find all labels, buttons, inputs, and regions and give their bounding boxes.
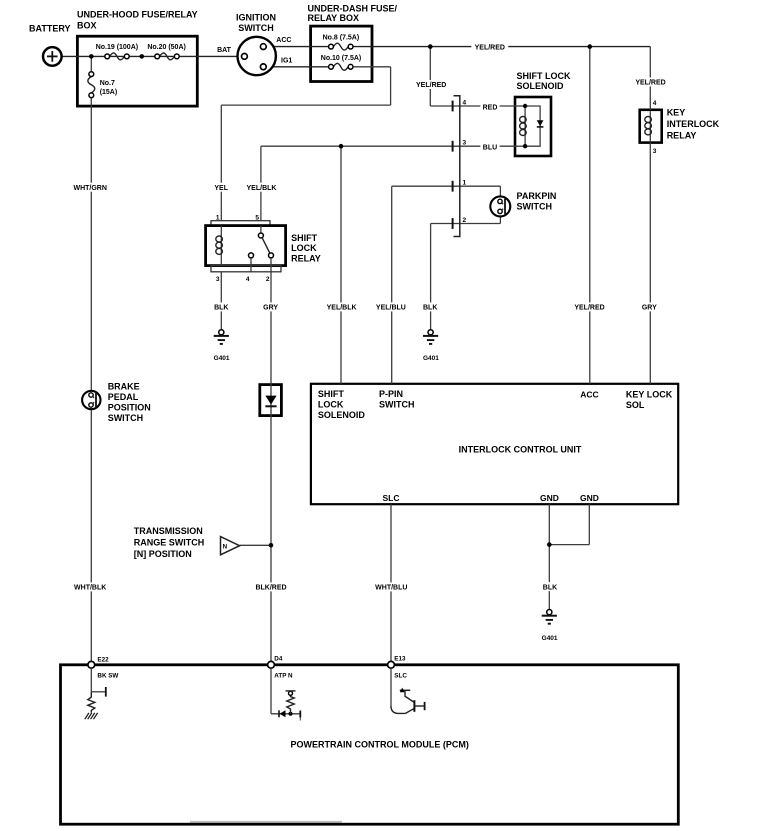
svg-text:POSITION: POSITION — [108, 403, 151, 413]
svg-text:INTERLOCK: INTERLOCK — [667, 119, 720, 129]
svg-text:3: 3 — [216, 276, 220, 283]
svg-text:3: 3 — [653, 148, 657, 155]
svg-text:4: 4 — [653, 100, 657, 107]
svg-text:BRAKE: BRAKE — [108, 382, 140, 392]
svg-text:SOLENOID: SOLENOID — [517, 81, 565, 91]
svg-text:BLK/RED: BLK/RED — [255, 585, 286, 592]
svg-text:SWITCH: SWITCH — [108, 413, 144, 423]
svg-text:5: 5 — [255, 214, 259, 221]
svg-text:P-PIN: P-PIN — [379, 389, 403, 399]
svg-text:SWITCH: SWITCH — [238, 23, 274, 33]
svg-text:1: 1 — [216, 214, 220, 221]
svg-text:IG1: IG1 — [281, 58, 292, 65]
svg-text:LOCK: LOCK — [291, 243, 317, 253]
svg-text:3: 3 — [463, 140, 467, 147]
svg-text:IGNITION: IGNITION — [236, 13, 276, 23]
svg-text:No.7: No.7 — [100, 80, 115, 87]
svg-text:BLK: BLK — [423, 305, 437, 312]
svg-text:RANGE SWITCH: RANGE SWITCH — [134, 537, 205, 547]
svg-text:2: 2 — [266, 276, 270, 283]
svg-text:G401: G401 — [423, 355, 439, 362]
svg-text:No.20 (50A): No.20 (50A) — [147, 44, 186, 51]
svg-text:SHIFT: SHIFT — [291, 233, 318, 243]
svg-text:SLC: SLC — [383, 493, 400, 503]
svg-text:[N] POSITION: [N] POSITION — [134, 549, 192, 559]
svg-text:2: 2 — [463, 217, 467, 224]
svg-text:No.10 (7.5A): No.10 (7.5A) — [321, 55, 361, 62]
svg-text:GND: GND — [540, 493, 559, 503]
svg-text:WHT/GRN: WHT/GRN — [73, 185, 106, 192]
svg-text:GRY: GRY — [263, 305, 278, 312]
svg-text:No.8 (7.5A): No.8 (7.5A) — [323, 34, 360, 41]
svg-text:KEY: KEY — [667, 107, 686, 117]
svg-text:BOX: BOX — [77, 21, 97, 31]
svg-text:SWITCH: SWITCH — [517, 202, 553, 212]
svg-text:E22: E22 — [97, 657, 109, 664]
svg-text:YEL/RED: YEL/RED — [475, 44, 505, 51]
svg-text:G401: G401 — [542, 635, 558, 642]
svg-text:RELAY: RELAY — [291, 253, 321, 263]
svg-text:ATP N: ATP N — [274, 673, 293, 680]
svg-text:GND: GND — [580, 493, 599, 503]
svg-text:E13: E13 — [394, 656, 406, 663]
svg-text:YEL/BLK: YEL/BLK — [327, 305, 357, 312]
svg-text:TRANSMISSION: TRANSMISSION — [134, 526, 203, 536]
svg-text:BAT: BAT — [217, 47, 232, 54]
svg-text:BK SW: BK SW — [97, 673, 118, 680]
svg-text:YEL: YEL — [214, 185, 228, 192]
svg-text:SOL: SOL — [626, 400, 645, 410]
svg-text:GRY: GRY — [642, 305, 657, 312]
svg-text:PARKPIN: PARKPIN — [517, 191, 557, 201]
svg-text:SLC: SLC — [394, 673, 407, 680]
svg-text:SWITCH: SWITCH — [379, 399, 415, 409]
svg-text:WHT/BLU: WHT/BLU — [375, 585, 407, 592]
svg-text:SHIFT: SHIFT — [318, 389, 345, 399]
svg-text:YEL/BLK: YEL/BLK — [247, 185, 277, 192]
svg-text:UNDER-HOOD FUSE/RELAY: UNDER-HOOD FUSE/RELAY — [77, 10, 198, 20]
svg-text:POWERTRAIN CONTROL MODULE (PCM: POWERTRAIN CONTROL MODULE (PCM) — [291, 740, 469, 750]
svg-text:1: 1 — [463, 180, 467, 187]
svg-text:No.19 (100A): No.19 (100A) — [96, 44, 138, 51]
svg-text:SHIFT LOCK: SHIFT LOCK — [517, 71, 571, 81]
svg-text:ACC: ACC — [580, 390, 598, 400]
svg-text:BLK: BLK — [214, 305, 228, 312]
svg-text:4: 4 — [246, 276, 250, 283]
svg-text:RED: RED — [483, 104, 498, 111]
svg-text:INTERLOCK CONTROL UNIT: INTERLOCK CONTROL UNIT — [459, 445, 582, 455]
svg-text:WHT/BLK: WHT/BLK — [74, 585, 106, 592]
svg-text:BLU: BLU — [483, 145, 497, 152]
svg-text:PEDAL: PEDAL — [108, 392, 139, 402]
svg-text:BLK: BLK — [543, 584, 557, 591]
svg-text:N: N — [223, 544, 228, 551]
svg-text:YEL/RED: YEL/RED — [635, 80, 665, 87]
svg-text:D4: D4 — [274, 656, 283, 663]
svg-text:YEL/BLU: YEL/BLU — [376, 305, 406, 312]
svg-text:YEL/RED: YEL/RED — [574, 305, 604, 312]
svg-text:ACC: ACC — [276, 37, 291, 44]
svg-text:RELAY: RELAY — [667, 131, 697, 141]
svg-text:RELAY BOX: RELAY BOX — [308, 13, 360, 23]
svg-text:4: 4 — [463, 99, 467, 106]
svg-text:LOCK: LOCK — [318, 399, 344, 409]
svg-text:SOLENOID: SOLENOID — [318, 410, 366, 420]
svg-text:UNDER-DASH FUSE/: UNDER-DASH FUSE/ — [308, 3, 398, 13]
svg-text:YEL/RED: YEL/RED — [416, 82, 446, 89]
svg-text:KEY LOCK: KEY LOCK — [626, 390, 673, 400]
svg-text:G401: G401 — [214, 355, 230, 362]
svg-text:BATTERY: BATTERY — [29, 24, 71, 34]
svg-text:(15A): (15A) — [100, 89, 118, 96]
